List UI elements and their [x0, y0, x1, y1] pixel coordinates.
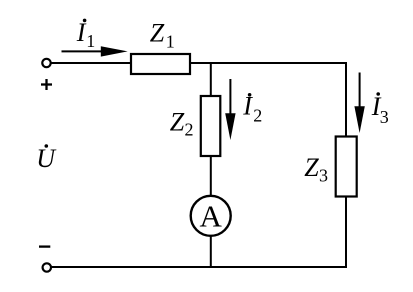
- svg-text:Z: Z: [150, 18, 165, 47]
- label I2 (İ₂): [242, 92, 262, 126]
- wire: Z2 to ammeter: [210, 156, 212, 196]
- svg-text:2: 2: [185, 119, 194, 139]
- wire: top-right corner down to Z3: [345, 62, 347, 137]
- svg-text:3: 3: [319, 166, 328, 186]
- svg-text:I: I: [76, 18, 87, 47]
- wire: ammeter to bottom wire: [210, 236, 212, 268]
- label I1 (İ₁): [76, 18, 96, 51]
- wire: top terminal to Z1: [51, 62, 131, 64]
- current arrow I3: [354, 73, 364, 134]
- wire: Z1 to top-right corner: [190, 62, 346, 64]
- impedance Z3 (box): [336, 137, 357, 197]
- svg-text:1: 1: [86, 31, 95, 51]
- svg-text:U: U: [36, 144, 57, 173]
- terminal + (top-left open circle): [42, 59, 50, 67]
- current arrow I2: [225, 79, 235, 140]
- bottom wire: [51, 266, 347, 268]
- plus sign: [41, 79, 52, 90]
- svg-text:Z: Z: [304, 153, 319, 182]
- svg-text:3: 3: [380, 107, 389, 127]
- terminal - (bottom-left open circle): [43, 263, 51, 271]
- svg-text:Z: Z: [170, 107, 185, 136]
- impedance Z1 (box): [131, 54, 190, 74]
- svg-text:A: A: [200, 199, 223, 234]
- label Z3: [304, 153, 328, 186]
- label U (U̇ source voltage): [36, 144, 57, 173]
- label Z1: [150, 18, 175, 51]
- svg-text:1: 1: [166, 32, 175, 52]
- label I3 (İ₃): [371, 92, 389, 127]
- wire: Z3 to bottom-right corner: [345, 197, 347, 268]
- label Z2: [170, 107, 194, 139]
- wire: junction down to Z2: [210, 62, 212, 96]
- ammeter A (circle): [191, 196, 231, 236]
- current arrow I1: [62, 46, 128, 56]
- minus sign: [39, 245, 50, 247]
- impedance Z2 (box): [201, 96, 221, 156]
- svg-text:I: I: [242, 92, 253, 121]
- svg-text:2: 2: [253, 106, 262, 126]
